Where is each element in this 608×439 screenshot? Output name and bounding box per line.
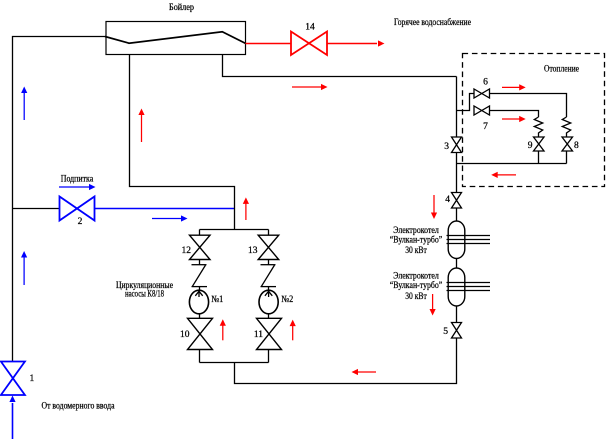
pipe: below valve 3 down to valve 4 <box>456 153 458 193</box>
valve 13 (vertical) <box>258 235 279 259</box>
svg-text:5: 5 <box>443 327 448 337</box>
pump branch 1: stub to valve 12 <box>199 230 201 236</box>
pipe: boiler return drop to pump riser <box>130 55 235 230</box>
valve 8 (vertical) <box>562 137 573 151</box>
valve 11 (vertical) <box>257 318 282 349</box>
svg-text:Подпитка: Подпитка <box>61 175 94 185</box>
pump N1 to valve 10 stub <box>199 314 201 319</box>
boiler heat exchanger coil <box>105 32 246 44</box>
svg-text:№1: №1 <box>211 295 223 305</box>
flow arrow up on left main (upper, blue) <box>23 93 25 121</box>
valve 6 (horizontal) <box>474 89 490 98</box>
stub valve 11 to bottom manifold <box>268 350 270 363</box>
svg-text:“Вулкан-турбо”: “Вулкан-турбо” <box>390 234 443 245</box>
flow arrow up beside valve 11 (red) <box>292 326 294 341</box>
svg-text:№2: №2 <box>281 295 293 305</box>
pipe: junction to valves 6 and 7 <box>457 94 475 111</box>
svg-text:8: 8 <box>574 141 579 151</box>
svg-text:30 кВт: 30 кВт <box>405 292 427 302</box>
svg-text:30 кВт: 30 кВт <box>405 246 427 256</box>
svg-text:От водомерного ввода: От водомерного ввода <box>42 402 116 412</box>
pipe: valve 5 down and bottom return to pumps <box>235 338 457 384</box>
pipe: hot water outlet (red) <box>246 43 292 45</box>
pipe: cold water main left vertical <box>13 37 107 362</box>
pipe after valve 6 to radiator 8 branch <box>490 94 567 118</box>
valve 5 (vertical) <box>452 323 462 339</box>
svg-text:12: 12 <box>182 246 192 256</box>
radiator coil 9 <box>534 117 542 137</box>
electric boiler 2 vessel <box>448 268 465 306</box>
pipe after valve 7 to radiator 9 branch <box>490 111 539 118</box>
pump N2 stub <box>268 287 270 291</box>
pipe: valve 4 to electric boiler 1 <box>456 208 458 221</box>
flow arrow right after valve 7 (red) <box>502 118 520 120</box>
svg-text:10: 10 <box>180 330 190 340</box>
svg-text:4: 4 <box>445 195 450 205</box>
svg-text:2: 2 <box>78 217 83 227</box>
stub valve 12 to flexible insert <box>199 260 201 265</box>
svg-text:Электрокотел: Электрокотел <box>393 226 439 236</box>
svg-text:Бойлер: Бойлер <box>169 2 194 13</box>
flow arrow right after valve 6 (red) <box>502 86 520 88</box>
heating circuit dashed enclosure <box>463 54 605 187</box>
valve 12 (vertical) <box>190 235 211 259</box>
stub valve 10 to bottom manifold <box>199 350 201 363</box>
pipe below valve 8 <box>566 151 568 164</box>
svg-text:3: 3 <box>444 142 449 152</box>
flow arrow up beside valve 10 (red) <box>222 325 224 340</box>
flow arrow left on heating return (red) <box>497 174 516 176</box>
valve 4 (vertical) <box>452 193 462 209</box>
flow arrow left on bottom return (red) <box>358 371 377 373</box>
radiator coil 8 <box>562 117 570 137</box>
svg-text:7: 7 <box>483 122 488 132</box>
valve 14 (red, horizontal) <box>291 32 327 56</box>
pipe: inlet below valve 1 (blue) <box>12 403 14 439</box>
svg-text:13: 13 <box>248 246 258 256</box>
pump group bottom manifold <box>200 362 269 364</box>
svg-text:“Вулкан-турбо”: “Вулкан-турбо” <box>390 280 443 291</box>
flexible insert Z (branch 1) <box>192 265 208 287</box>
flow arrow up beside pump riser (red) <box>245 203 247 220</box>
pipe: heating supply vertical <box>456 77 458 138</box>
stub valve 13 to flexible insert <box>268 260 270 265</box>
flow arrow up into valve 1 (blue) <box>9 396 15 403</box>
valve 1 (blue, vertical) <box>1 362 25 396</box>
flow arrow down beside valve 4 (red) <box>433 195 435 213</box>
pipe: between electric boilers <box>456 259 458 269</box>
pump N2 (circle with up arrow) <box>259 290 278 314</box>
pipe: boiler supply to heating circuit <box>223 55 457 77</box>
flow arrow right on make-up line (blue) <box>152 218 182 220</box>
svg-text:11: 11 <box>254 330 263 340</box>
flow arrow down below boilers (red) <box>432 294 434 310</box>
svg-text:6: 6 <box>483 78 488 88</box>
pump branch 2: stub to valve 13 <box>268 230 270 236</box>
svg-text:Горячее водоснабжение: Горячее водоснабжение <box>394 17 471 28</box>
pipe: make-up water line black segment <box>13 208 60 210</box>
valve 9 (vertical) <box>534 137 545 151</box>
pump N1 (circle with up arrow) <box>189 290 208 314</box>
svg-text:14: 14 <box>305 23 315 33</box>
svg-text:Отопление: Отопление <box>544 65 579 75</box>
flow arrow up beside boiler return drop (red) <box>141 115 143 143</box>
svg-text:Электрокотел: Электрокотел <box>393 271 439 281</box>
boiler (Бойлер) vessel rectangle <box>106 22 246 55</box>
pipe: electric boiler 2 to valve 5 <box>456 306 458 323</box>
valve 10 (vertical) <box>188 318 213 349</box>
electric boiler 1 heating element lines <box>447 236 491 244</box>
svg-text:1: 1 <box>30 374 35 384</box>
pipe: heating return bottom line <box>457 163 567 165</box>
pump N2 to valve 11 stub <box>268 314 270 319</box>
svg-text:насосы К8/18: насосы К8/18 <box>125 290 164 300</box>
valve 7 (horizontal) <box>474 106 490 115</box>
flow arrow right under Подпитка (blue) <box>59 186 90 188</box>
electric boiler 2 heating element lines <box>447 283 491 291</box>
pump group top manifold <box>200 229 269 231</box>
flexible insert Z (branch 2) <box>261 265 277 287</box>
pipe below valve 9 <box>538 151 540 164</box>
flow arrow up on left main (lower, blue) <box>23 257 25 285</box>
svg-text:9: 9 <box>528 141 533 151</box>
valve 3 (bypass, vertical) <box>452 137 462 153</box>
pipe + flow arrow to hot water supply (red) <box>327 43 377 45</box>
electric boiler 1 vessel <box>448 221 465 259</box>
flow arrow right under supply pipe (red) <box>292 86 322 88</box>
pipe: make-up water line blue segment <box>95 208 235 210</box>
valve 2 (blue, horizontal) <box>60 197 95 221</box>
pump N1 stub <box>199 287 201 291</box>
